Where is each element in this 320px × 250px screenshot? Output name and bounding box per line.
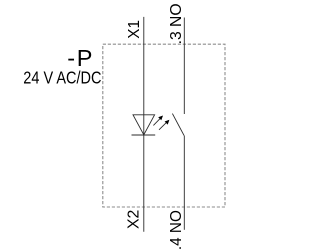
switch S1 NO contact blade (terminals .3/.4)	[172, 114, 184, 136]
svg-text:.4 NO: .4 NO	[168, 210, 185, 250]
wire .3 NO upper lead	[183, 18, 185, 115]
svg-text:X2: X2	[126, 210, 143, 229]
LED cathode bar	[132, 134, 156, 136]
wire X1-X2 conductor (left lead through LED)	[143, 17, 145, 232]
svg-text:24 V AC/DC: 24 V AC/DC	[23, 68, 101, 88]
svg-text:.3 NO: .3 NO	[168, 3, 185, 44]
LED P indicator: triangle (anode)	[133, 115, 155, 135]
LED light arrow 1	[153, 116, 163, 126]
LED light arrow 2	[159, 120, 169, 130]
wire .4 NO lower lead	[183, 136, 185, 230]
module outline (dashed enclosure)	[103, 44, 225, 207]
svg-text:X1: X1	[126, 20, 143, 39]
